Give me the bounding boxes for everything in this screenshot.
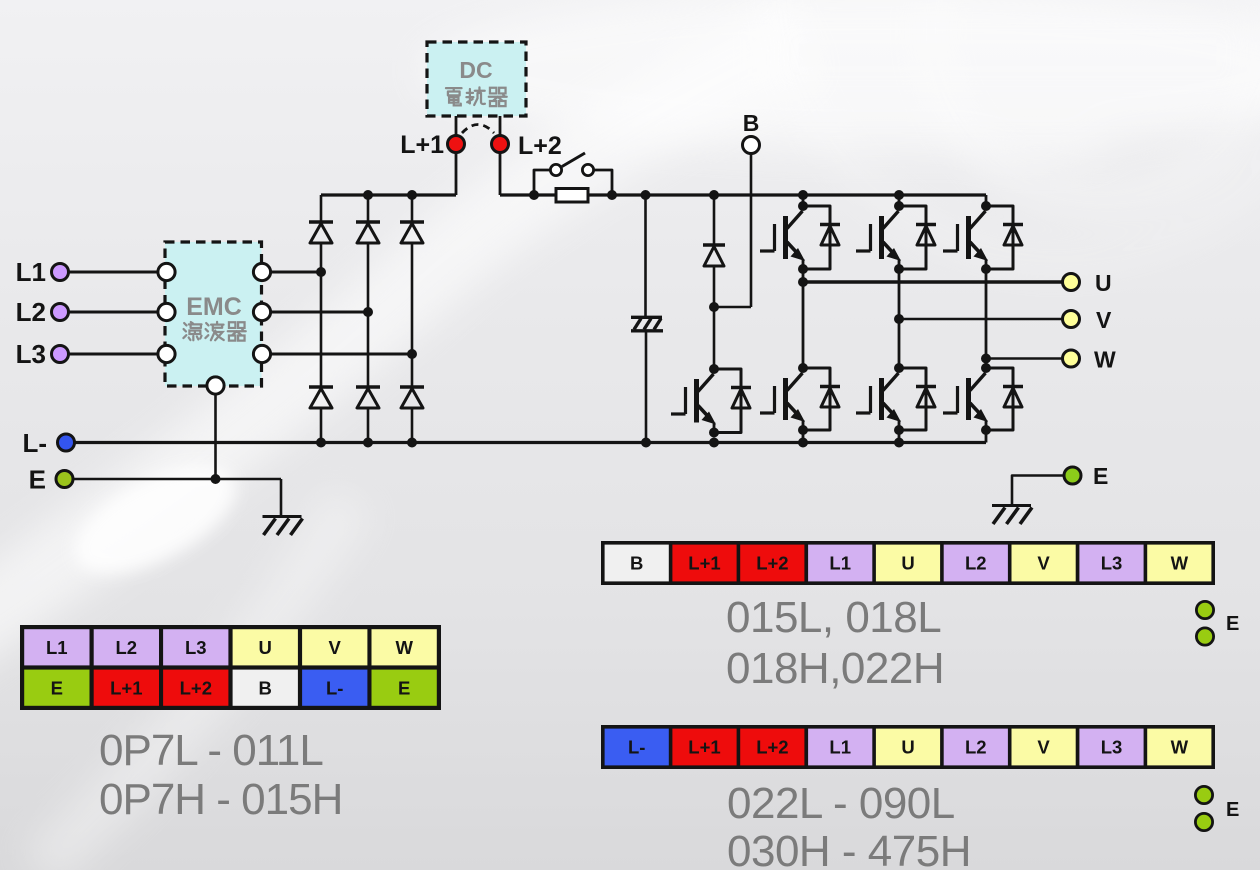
svg-text:030H - 475H: 030H - 475H <box>727 827 971 870</box>
svg-text:L+2: L+2 <box>180 677 212 698</box>
wire: B terminal riser <box>750 153 753 307</box>
wire: L+2 terminal drop <box>499 152 502 195</box>
wire: L3 input to EMC <box>66 353 160 356</box>
wire: B tap horizontal <box>714 306 751 309</box>
svg-text:B: B <box>743 110 760 136</box>
wire: leg U emitter stub <box>802 430 805 443</box>
wire: drop to ground PE1 <box>280 479 283 516</box>
diode D5 (rectifier bottom col2) <box>356 387 380 408</box>
terminal E (right) <box>1064 467 1081 484</box>
wire: rectifier column 3 lower <box>411 408 414 442</box>
svg-text:L1: L1 <box>829 553 851 574</box>
wire: rectifier column 1 upper <box>320 195 323 222</box>
terminal table 022L-090L 030H-475H <box>601 725 1215 769</box>
wire: capacitor top lead <box>644 195 647 316</box>
svg-text:L+2: L+2 <box>518 132 562 160</box>
wire: leg W emitter stub <box>985 430 988 443</box>
diode D7 (brake) <box>703 245 725 266</box>
wire: leg W mid vertical <box>985 269 988 368</box>
svg-text:015L, 018L: 015L, 018L <box>726 593 941 642</box>
wire: EMC out to rectifier col3 <box>268 353 412 356</box>
svg-text:E: E <box>29 465 46 495</box>
wire: brake diode to B node <box>713 266 716 307</box>
wire: EMC out to rectifier col2 <box>268 311 368 314</box>
wire: W output bus <box>986 357 1062 360</box>
svg-text:V: V <box>1037 737 1050 758</box>
EMC filter label 濾波器 (drawn) <box>183 322 245 341</box>
wire: leg V mid vertical <box>898 269 901 368</box>
svg-text:L2: L2 <box>965 553 987 574</box>
svg-text:L2: L2 <box>116 637 138 658</box>
junction: leg U to U output <box>798 277 808 287</box>
wire: DC reactor right lead <box>499 116 502 136</box>
svg-text:L1: L1 <box>16 257 46 287</box>
wire: U output bus <box>803 280 1062 284</box>
svg-text:022L - 090L: 022L - 090L <box>727 779 955 828</box>
junction: capacitor to bottom bus <box>641 438 651 448</box>
svg-text:L+1: L+1 <box>688 553 720 574</box>
svg-text:L+1: L+1 <box>110 677 142 698</box>
wire: leg W collector stub <box>985 195 988 206</box>
transistor Q2 (V high-side IGBT) with diode <box>856 201 936 274</box>
svg-text:E: E <box>398 677 410 698</box>
junction: brake emitter to bottom bus <box>709 438 719 448</box>
EMC filter box <box>165 242 262 386</box>
earth stud E (lower pair) <box>1195 786 1239 830</box>
junction: bypass branch left <box>529 190 539 200</box>
terminal table 015L/018L 018H/022H <box>601 541 1215 585</box>
wire: bypass branch right-down <box>594 170 612 195</box>
svg-text:U: U <box>1095 270 1112 296</box>
capacitor C1 (DC bus electrolytic) <box>631 317 663 331</box>
wire: top DC bus segment right <box>500 193 986 196</box>
diode D1 (rectifier top col1) <box>309 222 333 243</box>
wire: L2 input to EMC <box>66 311 160 314</box>
wire: leg U collector stub <box>802 195 805 206</box>
svg-text:V: V <box>1037 553 1050 574</box>
wire: E terminal line <box>70 478 281 481</box>
wire: rectifier column 2 upper <box>367 195 370 222</box>
ground PE2 (right earth) <box>992 506 1032 525</box>
wire: bypass branch up-left <box>534 170 550 195</box>
junction: leg V to V output <box>894 314 904 324</box>
svg-text:W: W <box>1171 737 1189 758</box>
terminal E (left) <box>56 471 73 488</box>
svg-text:L3: L3 <box>1101 737 1123 758</box>
wire: EMC earth lead <box>214 392 217 479</box>
junction: leg U on top bus <box>798 190 808 200</box>
svg-text:L3: L3 <box>16 339 46 369</box>
svg-text:U: U <box>259 637 272 658</box>
junction: EMC earth on E line <box>211 474 221 484</box>
svg-text:W: W <box>1094 347 1116 373</box>
wire: rectifier column 3 upper <box>411 195 414 222</box>
junction: leg V on top bus <box>894 190 904 200</box>
wire: leg V emitter stub <box>898 430 901 443</box>
DC reactor box <box>427 42 526 116</box>
transistor Q6 (W low-side IGBT) with diode <box>943 363 1023 435</box>
transistor Q5 (V low-side IGBT) with diode <box>856 363 936 435</box>
terminal B <box>743 137 760 154</box>
wire: brake IGBT collector lead <box>713 307 716 369</box>
junction: col3 top bus <box>407 190 417 200</box>
junction: col1 bottom bus <box>316 438 326 448</box>
junction: leg U on bottom bus <box>798 438 808 448</box>
junction: leg V on bottom bus <box>894 438 904 448</box>
svg-text:B: B <box>259 677 272 698</box>
wire: brake diode top lead <box>713 195 716 245</box>
svg-text:E: E <box>51 677 63 698</box>
junction: col2 bottom bus <box>363 438 373 448</box>
junction: L3 to col3 <box>407 349 417 359</box>
svg-text:L-: L- <box>628 737 645 758</box>
svg-text:W: W <box>395 637 413 658</box>
wire: leg U mid vertical <box>802 269 805 368</box>
svg-text:B: B <box>630 553 643 574</box>
transistor Q1 (U high-side IGBT) with diode <box>760 201 840 274</box>
terminal W <box>1063 350 1080 367</box>
junction: node B tap <box>709 302 719 312</box>
wire: V output bus <box>899 318 1062 321</box>
transistor Q3 (W high-side IGBT) with diode <box>943 201 1023 274</box>
wire: EMC out to rectifier col1 <box>268 271 321 274</box>
wire: rectifier column 1 lower <box>320 408 323 442</box>
junction: DC bus to capacitor <box>641 190 651 200</box>
svg-text:L2: L2 <box>965 737 987 758</box>
svg-text:L2: L2 <box>16 297 46 327</box>
jumper (dashed) between L+1 and L+2 <box>462 125 494 134</box>
svg-text:0P7L - 011L: 0P7L - 011L <box>99 726 323 775</box>
wire: L+1 terminal drop <box>455 152 458 195</box>
terminal U <box>1063 274 1080 291</box>
svg-text:L1: L1 <box>829 737 851 758</box>
svg-text:L3: L3 <box>185 637 207 658</box>
junction: leg W to W output <box>981 354 991 364</box>
svg-text:EMC: EMC <box>186 293 242 321</box>
junction: DC bus to brake chopper <box>709 190 719 200</box>
junction: col3 bottom bus <box>407 438 417 448</box>
diode D6 (rectifier bottom col3) <box>400 387 424 408</box>
svg-text:W: W <box>1171 553 1189 574</box>
switch S1 (bypass contactor) <box>550 153 593 176</box>
svg-text:E: E <box>1226 613 1239 635</box>
wire: rectifier column 3 middle <box>411 244 414 387</box>
wire: capacitor bottom lead <box>645 331 648 443</box>
svg-text:L-: L- <box>22 428 47 458</box>
svg-text:L1: L1 <box>46 637 68 658</box>
wire: rectifier column 2 middle <box>367 244 370 387</box>
svg-text:L+1: L+1 <box>688 737 720 758</box>
earth stud E (upper pair) <box>1196 601 1239 645</box>
svg-text:L-: L- <box>326 677 343 698</box>
diode D4 (rectifier bottom col1) <box>309 387 333 408</box>
wire: rectifier column 1 middle <box>320 244 323 387</box>
svg-text:U: U <box>901 737 914 758</box>
svg-text:L+2: L+2 <box>756 737 788 758</box>
terminal V <box>1063 311 1080 328</box>
junction: L2 to col2 <box>363 307 373 317</box>
terminal L+1 <box>448 136 465 153</box>
diode D3 (rectifier top col3) <box>400 222 424 243</box>
svg-text:DC: DC <box>459 57 492 83</box>
terminal L+2 <box>492 136 509 153</box>
wire: L1 input to EMC <box>66 271 160 274</box>
wire: DC reactor left lead <box>455 116 458 136</box>
diode D2 (rectifier top col2) <box>356 222 380 243</box>
terminal L3 <box>52 346 69 363</box>
svg-text:L3: L3 <box>1101 553 1123 574</box>
transistor Q4 (U low-side IGBT) with diode <box>760 363 840 435</box>
wire: right E to ground <box>1012 476 1063 506</box>
svg-text:L+2: L+2 <box>756 553 788 574</box>
svg-text:V: V <box>1096 307 1112 333</box>
svg-text:018H,022H: 018H,022H <box>726 644 944 693</box>
terminal table 0P7L-011L / 0P7H-015H <box>20 625 441 710</box>
junction: col2 top bus <box>363 190 373 200</box>
wire: leg V collector stub <box>898 195 901 206</box>
terminal L2 <box>52 304 69 321</box>
transistor Q7 (brake IGBT) with diode <box>671 364 751 438</box>
terminal L- <box>58 434 75 451</box>
svg-text:U: U <box>901 553 914 574</box>
junction: L1 to col1 <box>316 267 326 277</box>
svg-text:L+1: L+1 <box>400 131 444 159</box>
wire: bottom DC bus (L-) <box>74 441 986 444</box>
ground PE1 (left earth) <box>263 517 303 536</box>
DC reactor label 電抗器 (drawn) <box>446 87 507 106</box>
svg-text:V: V <box>329 637 342 658</box>
junction: bypass branch right <box>607 190 617 200</box>
svg-text:0P7H - 015H: 0P7H - 015H <box>99 775 342 824</box>
wire: top DC bus segment left <box>321 193 456 196</box>
svg-text:E: E <box>1093 463 1108 489</box>
terminal L1 <box>52 264 69 281</box>
EMC terminal circles <box>158 263 175 280</box>
resistor R1 (pre-charge) <box>556 189 588 203</box>
svg-text:E: E <box>1226 799 1239 821</box>
wire: rectifier column 2 lower <box>367 408 370 442</box>
